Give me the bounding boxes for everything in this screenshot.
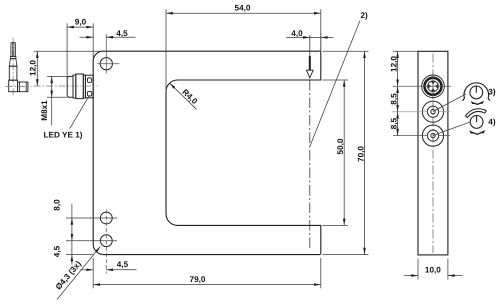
dim M8x1 [47, 75, 67, 77]
angled cable connector: center line [12, 38, 14, 96]
dim 4,5 top [80, 36, 94, 38]
svg-text:12,0: 12,0 [28, 60, 37, 76]
svg-text:4,5: 4,5 [117, 260, 129, 269]
leader to knob 4 [433, 122, 470, 135]
svg-text:3): 3) [488, 88, 496, 97]
dim 8,5 upper side [396, 86, 399, 93]
svg-text:54,0: 54,0 [235, 4, 251, 13]
svg-text:9,0: 9,0 [75, 18, 87, 27]
M8 connector nut [76, 74, 84, 99]
bottom pot extension line [393, 135, 427, 137]
plug axis line [6, 85, 32, 87]
dim 79,0 bottom [92, 258, 94, 288]
leader to knob 3 [433, 94, 466, 112]
svg-text:10,0: 10,0 [425, 265, 441, 274]
label LED YE 1) with leader [70, 96, 89, 128]
mounting hole middle-bottom [100, 212, 112, 224]
dim 9,0 [66, 23, 68, 77]
LED window lower [87, 91, 91, 96]
svg-text:LED YE 1): LED YE 1) [44, 131, 83, 140]
cable [10, 43, 12, 57]
screw crosshair / 12,0 extension [393, 85, 451, 87]
dim 4,0 top right [286, 36, 310, 38]
connector ring 2 [83, 75, 85, 98]
potentiometer bottom [422, 125, 443, 146]
svg-text:8,5: 8,5 [390, 93, 399, 105]
dim 70,0 [323, 50, 369, 52]
mounting hole top [100, 58, 112, 70]
middle pot grey extension line [392, 111, 427, 113]
dim 8,5 lower side [396, 112, 399, 119]
dim 50,0 [323, 79, 349, 81]
potentiometer middle [422, 101, 443, 122]
bottom holes vertical center line (dashed) [105, 210, 107, 274]
LED window upper [87, 78, 91, 83]
plug angle block [9, 80, 18, 92]
svg-text:4,5: 4,5 [53, 245, 62, 257]
cable collar [10, 57, 16, 59]
svg-text:4,0: 4,0 [291, 29, 303, 38]
svg-text:50,0: 50,0 [336, 138, 345, 154]
connector rear body [85, 75, 93, 98]
svg-text:8,5: 8,5 [390, 117, 399, 129]
side body outline [418, 51, 448, 255]
connector ring 1 [73, 75, 76, 98]
svg-text:79,0: 79,0 [190, 275, 206, 284]
svg-text:8,0: 8,0 [53, 199, 62, 211]
svg-text:Ø4,3 (3x): Ø4,3 (3x) [54, 259, 83, 291]
svg-text:2): 2) [361, 11, 369, 20]
svg-text:4,5: 4,5 [116, 29, 128, 38]
light beam axis (dash-dot) [309, 35, 311, 57]
svg-text:M8x1: M8x1 [40, 100, 49, 121]
plug upper body [9, 66, 17, 80]
label 2) with leader [310, 21, 360, 147]
dim 12,0 side [393, 50, 418, 52]
svg-text:4): 4) [488, 117, 496, 126]
M8 connector thread on body left [67, 76, 73, 97]
label R4,0 with leader [170, 83, 197, 109]
dim 12,0 left [34, 50, 103, 52]
connector axis center line [34, 85, 98, 87]
dim 54,0 top [165, 9, 167, 91]
svg-text:12,0: 12,0 [390, 56, 399, 72]
adjuster knob 3) symbol [470, 86, 483, 99]
mounting hole bottom [100, 235, 112, 247]
dim 10,0 bottom side [417, 259, 419, 280]
top hole crosshair [97, 63, 120, 65]
adjuster knob 4) symbol [470, 116, 483, 129]
sensor body outline (U-frame, open right) [93, 51, 321, 255]
svg-text:70,0: 70,0 [357, 146, 366, 162]
light beam arrow (hollow) [309, 56, 311, 70]
mounting screw (top circle group) [422, 75, 445, 98]
label Ø4,3 (3x) with leader [57, 247, 100, 300]
side body center line [432, 54, 434, 254]
strain relief taper [9, 59, 17, 66]
plug socket (faces right) [18, 82, 28, 92]
dim 4,5 bottom [81, 269, 94, 271]
dim chain 8,0 / 4,5 bottom left [66, 217, 117, 219]
